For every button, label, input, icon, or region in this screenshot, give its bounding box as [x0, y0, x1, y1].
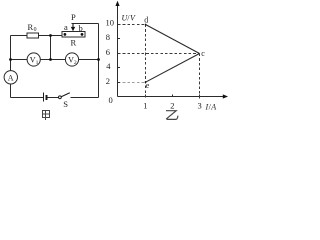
x-axis ticks — [146, 94, 200, 96]
wire top from left corner to resistor R0 — [11, 35, 28, 37]
svg-text:3: 3 — [198, 101, 202, 111]
svg-text:1: 1 — [143, 101, 147, 111]
y-axis ticks — [118, 25, 121, 83]
dashed guide U=2 to point e — [118, 81, 146, 83]
x tick label 2 — [170, 101, 174, 111]
y tick label 4 — [106, 61, 111, 71]
svg-text:a: a — [64, 22, 68, 32]
wire slider P lead going right — [72, 23, 99, 25]
svg-text:d: d — [144, 15, 148, 24]
svg-text:b: b — [79, 23, 83, 33]
x tick label 3 — [198, 101, 202, 111]
terminal label a — [64, 22, 68, 32]
y tick label 2 — [106, 76, 110, 86]
svg-text:S: S — [63, 99, 68, 109]
point d — [144, 15, 148, 25]
svg-text:A: A — [210, 103, 216, 112]
svg-text:P: P — [71, 12, 76, 22]
wire voltmeter branch row — [11, 59, 99, 61]
svg-text:2: 2 — [106, 76, 110, 86]
label jia (circuit 甲) drawn as strokes — [43, 111, 50, 120]
y tick label 8 — [106, 32, 110, 42]
voltmeter V1 — [27, 53, 40, 66]
line d to c — [146, 25, 200, 54]
node junction on top wire — [49, 34, 52, 37]
wire top from R0 to rheostat R — [39, 35, 62, 37]
node junction left rail voltmeter row — [9, 58, 12, 61]
svg-text:6: 6 — [106, 47, 110, 57]
point e — [145, 81, 150, 90]
svg-text:8: 8 — [106, 32, 110, 42]
battery cell — [44, 92, 47, 101]
svg-text:0: 0 — [109, 95, 113, 105]
svg-text:A: A — [8, 73, 14, 82]
rheostat slider P arrow — [71, 12, 76, 32]
wire left rail — [10, 36, 12, 98]
ammeter A — [4, 71, 17, 84]
node junction right rail voltmeter row — [97, 58, 100, 61]
svg-text:4: 4 — [106, 61, 111, 71]
svg-text:1: 1 — [36, 60, 39, 66]
terminal label b — [79, 23, 83, 33]
resistor R0 — [27, 22, 39, 38]
line e to c — [146, 54, 200, 83]
svg-text:e: e — [146, 81, 150, 90]
dashed guide U=6 to point c — [118, 53, 200, 55]
wire battery to switch — [47, 97, 59, 99]
origin label 0 — [109, 95, 113, 105]
dashed guide I=3 vertical below c — [199, 54, 201, 99]
y tick label 10 — [106, 18, 115, 28]
svg-text:2: 2 — [170, 101, 174, 111]
dashed guide I=1 vertical through d and e — [145, 25, 147, 99]
svg-text:0: 0 — [34, 27, 37, 33]
voltmeter V2 — [65, 53, 78, 66]
y tick label 6 — [106, 47, 110, 57]
wire right rail — [98, 24, 100, 98]
graph y-axis U/V — [115, 1, 136, 97]
node junction middle voltmeter row — [49, 58, 52, 61]
switch S — [59, 93, 70, 109]
x tick label 1 — [143, 101, 147, 111]
svg-text:c: c — [201, 49, 205, 58]
svg-text:R: R — [71, 37, 77, 47]
wire switch to right corner — [71, 97, 99, 99]
rheostat R body — [62, 32, 85, 48]
svg-text:10: 10 — [106, 18, 115, 28]
svg-text:2: 2 — [74, 60, 77, 66]
svg-text:R: R — [28, 22, 34, 32]
label yi (graph 乙) drawn as strokes — [166, 111, 178, 120]
graph x-axis I/A — [118, 94, 229, 111]
point c — [201, 49, 205, 58]
wire junction branch down from top wire — [50, 36, 52, 60]
dashed guide U=10 to point d — [118, 24, 146, 26]
wire bottom left segment — [11, 97, 44, 99]
